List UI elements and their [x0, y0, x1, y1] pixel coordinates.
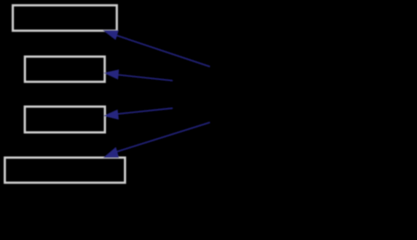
arrow 2 head	[104, 70, 119, 80]
arrow 4 head	[103, 147, 119, 158]
arrow 3 head	[103, 110, 119, 120]
arrow 2 (to box 2) : wire	[116, 75, 173, 81]
box 1 (top text frame)	[13, 5, 117, 30]
arrow 4 (to box 4) : wire	[115, 122, 210, 152]
arrow 1 head	[103, 30, 119, 40]
box 2 (second text frame)	[25, 57, 105, 82]
box 3 (third text frame)	[25, 107, 105, 133]
arrow 1 (to box 1) : wire	[115, 35, 210, 67]
arrow 3 (to box 3) : wire	[116, 108, 173, 114]
box 4 (bottom text frame)	[5, 158, 125, 183]
